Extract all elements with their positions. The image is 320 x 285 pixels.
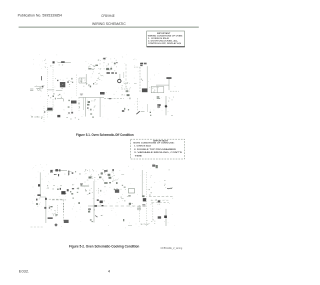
wire dashed vertical bottom A xyxy=(139,205,141,223)
small dark mark right of EOC xyxy=(122,110,124,112)
wire bus horizontal solid xyxy=(88,205,104,207)
wire bus far right vertical xyxy=(165,209,167,226)
svg-text:2. DOOR UNLOCKED, ALL: 2. DOOR UNLOCKED, ALL xyxy=(148,40,179,43)
element square on bus (dark) xyxy=(164,216,167,219)
B2 bottom edge dark bits xyxy=(104,182,107,184)
wire dotted vertical bus C xyxy=(43,106,45,122)
EOC pin vertical P2 xyxy=(82,98,84,111)
svg-text:2. DOUBLE TOP PROGRAMMED: 2. DOUBLE TOP PROGRAMMED xyxy=(134,148,177,151)
svg-text:CFBVH4E: CFBVH4E xyxy=(101,14,115,18)
junction dot TH1 xyxy=(42,86,44,88)
dark bit on dashes xyxy=(158,201,161,203)
control block label (dark) xyxy=(103,58,105,60)
svg-text:NOTE CONDITIONS OF OVEN USE:: NOTE CONDITIONS OF OVEN USE: xyxy=(133,143,174,145)
wire dashes far right xyxy=(170,90,179,92)
faint marks right col xyxy=(78,103,79,104)
dot xyxy=(72,183,73,186)
wire to 240V label xyxy=(156,85,169,90)
component cluster inside EOC xyxy=(88,101,90,103)
dark dash on bus xyxy=(109,98,111,99)
note box legend (middle right) xyxy=(131,139,185,159)
wire dark dashes mid xyxy=(80,94,83,95)
clock coil (dark) xyxy=(71,101,77,104)
marks bottom of bus xyxy=(90,219,92,220)
note box IMPORTANT (top right) xyxy=(147,31,185,47)
EOC bus dashed continuation xyxy=(104,98,124,100)
dash right of tick xyxy=(101,215,103,217)
marks right edge xyxy=(126,90,129,92)
scan noise texture xyxy=(31,54,176,228)
wire right vertical xyxy=(141,170,143,197)
wire dash row under M2 xyxy=(52,199,66,201)
wire dotted bus A lower extension xyxy=(47,99,49,118)
node N1 (L1 terminal) xyxy=(53,61,55,63)
wire dashed vertical to S2 xyxy=(137,98,139,111)
arrow mark on bus (dark) xyxy=(102,205,104,206)
wire dash row xyxy=(121,88,130,90)
dark tick left xyxy=(44,111,45,112)
switch S1 (dark tick) xyxy=(40,76,43,80)
timer section wire L xyxy=(57,99,63,102)
faint marks right of DLR xyxy=(122,185,123,186)
svg-text:TIME: TIME xyxy=(135,156,143,158)
svg-text:Publication No. 5995339854: Publication No. 5995339854 xyxy=(18,14,62,18)
plus cluster xyxy=(129,203,131,205)
wire right vertical dashed xyxy=(146,172,148,226)
CN2 pin tick xyxy=(68,171,69,175)
svg-text:CONTROLS OFF, DISPLAY A,N: CONTROLS OFF, DISPLAY A,N xyxy=(148,42,182,45)
label m (dark) xyxy=(158,216,161,218)
wire faint vertical xyxy=(123,72,125,78)
EOC pin vertical P1 (dotted) xyxy=(78,98,80,112)
dashes right of connector xyxy=(149,86,160,88)
wire dash under M1 xyxy=(56,90,62,92)
marks near bus right xyxy=(127,94,130,96)
motor M1 (dark blob) xyxy=(60,82,65,87)
label cluster 98 left xyxy=(88,208,91,210)
wire y186 xyxy=(81,185,90,187)
tick left of DLR xyxy=(100,190,101,192)
jog wire xyxy=(40,196,46,198)
contact mark x xyxy=(88,84,89,86)
tick below bracket xyxy=(90,86,91,88)
dot mid xyxy=(93,83,94,85)
wire top main xyxy=(58,62,71,64)
specks bottom row xyxy=(67,116,68,119)
tick on bus 2 (dark) xyxy=(44,207,46,209)
wire dashed vertical xyxy=(63,200,65,222)
wire y183 (dark dashes) xyxy=(80,183,83,185)
wire bottom right horizontal (dashed) xyxy=(149,196,174,198)
wire dash right mid (dark) xyxy=(167,188,172,190)
connector CN1 (dark blob) xyxy=(142,88,148,92)
mark near cluster xyxy=(55,214,57,216)
contact cluster x-marks xyxy=(68,112,70,114)
marks mid faint xyxy=(68,106,70,108)
wire bus horizontal dashed xyxy=(104,205,146,207)
CN2 dark labels WH BK xyxy=(55,169,58,171)
svg-text:Figure 5-2. Oven Schematic-Coo: Figure 5-2. Oven Schematic-Cooking Condi… xyxy=(69,245,140,249)
timer wire stub mark xyxy=(54,98,57,100)
EOC pin vertical P4 xyxy=(99,98,101,118)
svg-text:1. OVEN IS IDLE: 1. OVEN IS IDLE xyxy=(134,146,152,148)
relay coil vertical xyxy=(85,74,87,85)
connector bracket CN2 top bar xyxy=(55,169,67,171)
label 98 (dark) xyxy=(100,201,103,204)
terminal ticks under fuse xyxy=(59,64,62,65)
junction arrow on bus (dark) xyxy=(165,105,168,108)
specks above timer xyxy=(53,96,55,97)
fuse F1 (dark body) xyxy=(61,61,65,63)
wire dashed vertical bake xyxy=(57,205,59,216)
dash left mid xyxy=(134,83,137,85)
wire faint vertical right of S2 xyxy=(147,104,149,112)
wire dark dash (element) xyxy=(48,217,53,219)
mark left of bus end xyxy=(150,115,151,116)
door latch relay DLR (dark cluster) xyxy=(115,189,119,193)
svg-text:3. VARIABLE BROILING, CONT'D: 3. VARIABLE BROILING, CONT'D xyxy=(134,151,183,154)
label 2W xyxy=(157,96,160,97)
mark under node xyxy=(49,65,52,66)
faint marks lower EOC xyxy=(90,113,92,114)
wire dashed vertical bottom B xyxy=(152,203,154,220)
svg-text:CFBVH4E_2_wiring: CFBVH4E_2_wiring xyxy=(161,246,183,250)
wire dashed vertical x53 xyxy=(52,99,54,110)
oven lamp LP1 (dark circle) xyxy=(118,79,121,82)
faint dashes right of board xyxy=(121,174,124,176)
label P2 (left marks) xyxy=(30,89,33,91)
wire dashes left of bus pair xyxy=(134,66,140,68)
marks below M1 xyxy=(53,93,54,94)
marks above blob xyxy=(142,195,144,197)
wire dashes to EOC xyxy=(121,94,129,96)
wire dotted vertical bus A xyxy=(47,67,49,94)
tick on bus (dark) xyxy=(95,216,97,218)
header rule xyxy=(19,26,199,28)
mark right small xyxy=(123,219,124,221)
specks near M2 xyxy=(73,198,74,199)
tick far left xyxy=(36,203,38,205)
marks left of S2 xyxy=(128,109,129,110)
dashes bottom left of right group xyxy=(128,225,132,227)
node point far left xyxy=(36,199,38,201)
svg-text:E032.: E032. xyxy=(19,270,29,274)
label F.B cluster (dark) xyxy=(140,63,143,65)
wire vertical stub xyxy=(168,79,170,85)
contact mark (dark) xyxy=(37,194,40,196)
end dash of far right bus xyxy=(171,114,172,116)
B7 cluster under legend (dark) xyxy=(152,165,155,167)
wire bus vertical solid (right) xyxy=(146,66,148,91)
svg-text:WIRING SCHEMATIC: WIRING SCHEMATIC xyxy=(92,22,126,26)
EOC pin vertical P3 xyxy=(84,98,86,117)
wire bus vertical far right xyxy=(165,96,167,115)
node mark left of CN2 (dark) xyxy=(50,170,52,173)
wire dash row xyxy=(49,198,64,200)
speck dots right xyxy=(75,171,76,172)
angled mark left low xyxy=(64,193,66,194)
faint dots mid xyxy=(48,188,49,189)
dashes bottom far left xyxy=(31,226,45,228)
B2 control board dark bits xyxy=(104,170,108,172)
wire bus left vertical (lower) xyxy=(45,197,47,223)
tick on bus (dark) xyxy=(45,198,47,200)
wire bus mid vertical xyxy=(93,181,95,223)
connector cells xyxy=(151,87,164,93)
triple bar xyxy=(137,207,141,210)
EOC bus wire xyxy=(79,96,105,98)
wire dash right of S2 xyxy=(141,111,145,113)
wire dashes right of lamp xyxy=(124,83,130,85)
schematic speckle texture top xyxy=(36,57,173,110)
wire dotted vertical bus B xyxy=(52,65,54,94)
node junction on bus (dark) xyxy=(94,205,97,207)
speck row mid xyxy=(47,185,48,186)
marks under lamp box xyxy=(128,195,130,196)
marks left of clock coil xyxy=(68,100,70,101)
lamp box LT xyxy=(129,189,135,194)
junction blob (dark) xyxy=(143,198,146,201)
contact dark square xyxy=(57,115,60,117)
wire dashed row right A xyxy=(151,199,170,201)
wire dash row bottom xyxy=(31,116,44,118)
wire dashed vertical small xyxy=(98,188,100,194)
bracket ticks left xyxy=(85,190,86,192)
label row (dark) above circle xyxy=(107,72,110,74)
wire to lamp xyxy=(119,74,121,80)
brush mark under M2 xyxy=(72,188,74,189)
wire bus left vertical (upper) xyxy=(39,172,41,197)
mark = left (dark) xyxy=(142,204,145,206)
specks right col xyxy=(121,197,122,198)
label 240V (dark) xyxy=(166,77,171,79)
specks above junction xyxy=(149,189,150,190)
wire dashed row right B xyxy=(152,201,169,203)
control block marks row xyxy=(106,68,109,70)
timer motor TM1 (dark bar) xyxy=(47,108,52,110)
marks bottom center xyxy=(141,223,148,225)
dot mid xyxy=(89,193,90,194)
door switch S2 (dark diagonal) xyxy=(136,111,139,114)
dark segment on dashed vertical xyxy=(63,203,65,212)
pin tick lower (dark) xyxy=(58,174,59,176)
switch M mark (dark) xyxy=(38,184,40,186)
broil element dark cluster xyxy=(64,220,69,223)
dark marks left pair xyxy=(97,199,99,201)
wire dotted vertical left of relay xyxy=(76,75,78,96)
label BK (dark) xyxy=(157,104,160,106)
dashes below DLR xyxy=(121,198,124,200)
M1 satellite contacts xyxy=(57,80,58,81)
relay K1 bracket cluster xyxy=(79,78,86,83)
mark under wire xyxy=(81,185,83,186)
wire dashed vertical x71.9 xyxy=(71,105,73,113)
thermostat TH1 cluster xyxy=(35,87,42,91)
wire vertical mid-right xyxy=(125,64,127,88)
dark dashes cluster mid-top xyxy=(88,68,91,69)
bake contact cluster (dark) xyxy=(49,207,50,208)
svg-text:Figure 5-1. Oven Schematic-Off: Figure 5-1. Oven Schematic-Off Condition xyxy=(76,133,134,137)
dash lower (dark) xyxy=(54,174,56,175)
schematic speckle texture bottom xyxy=(37,169,172,225)
wire dash row left xyxy=(47,89,54,91)
switch tick on bus xyxy=(141,79,143,81)
dot right of S2 xyxy=(150,112,151,113)
diamond node (dark) xyxy=(54,223,57,226)
fan motor M2 (dark blob) xyxy=(61,191,65,194)
CN2 dot xyxy=(72,172,74,174)
wire bus vertical dashed (right) xyxy=(139,67,141,92)
terminal block TB1 (dark) xyxy=(100,92,105,95)
M2 ticks xyxy=(60,188,61,190)
